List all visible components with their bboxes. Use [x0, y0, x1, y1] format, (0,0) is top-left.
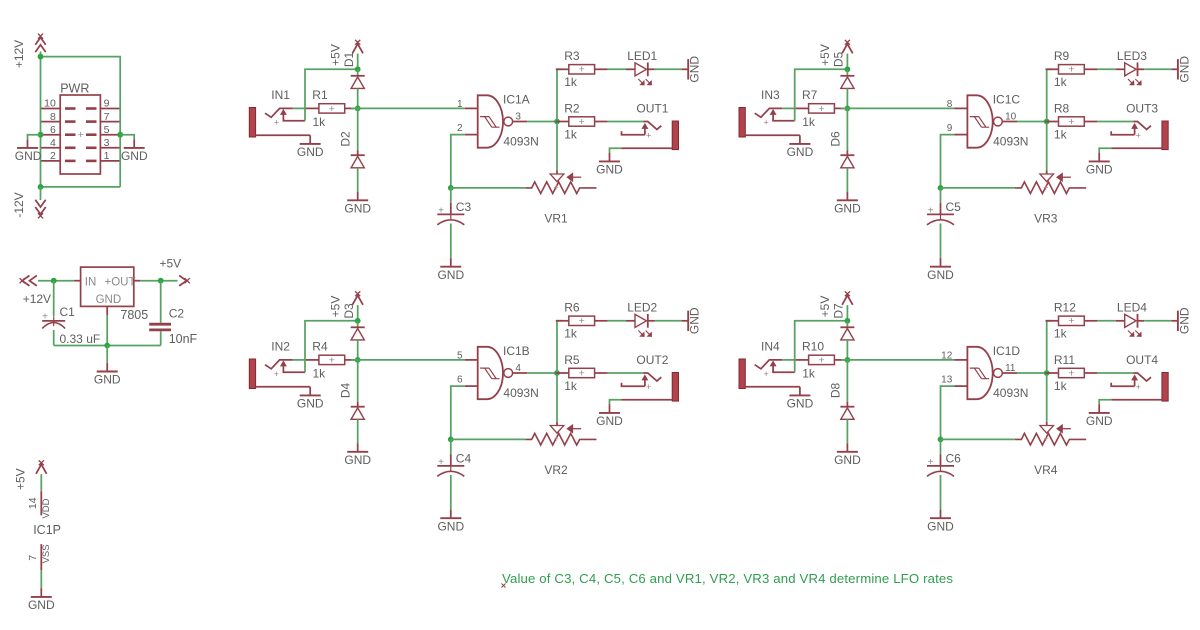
wire (gate output) — [527, 372, 557, 374]
svg-text:+: + — [579, 64, 585, 76]
ground (C5) — [927, 258, 954, 282]
svg-text:1k: 1k — [313, 366, 327, 380]
svg-text:+: + — [1068, 367, 1074, 379]
wire (+12V to regulator) — [38, 280, 74, 282]
svg-text:GND: GND — [834, 202, 861, 216]
svg-text:+: + — [818, 354, 824, 366]
wire (gate pin 2 to C/VR node) — [451, 386, 465, 439]
svg-text:+5V: +5V — [329, 296, 343, 318]
svg-text:IC1A: IC1A — [503, 92, 530, 106]
wire (jack switch to +5V node) — [795, 321, 848, 372]
ground (regulator) — [94, 363, 121, 387]
wire (resistor to output jack) — [1097, 121, 1133, 123]
supply +5V — [842, 40, 853, 53]
wire (to -12V) — [40, 187, 42, 200]
resistor R4 — [306, 354, 358, 366]
svg-text:1: 1 — [104, 150, 110, 162]
wire (sleeve to ground) — [1099, 148, 1111, 153]
svg-text:4093N: 4093N — [503, 386, 538, 400]
svg-text:+5V: +5V — [818, 296, 832, 318]
svg-text:1k: 1k — [564, 127, 578, 141]
ground (OUT4) — [1086, 404, 1113, 428]
svg-text:D2: D2 — [339, 131, 353, 147]
svg-text:IN3: IN3 — [761, 88, 780, 102]
wire (C6 to ground) — [940, 475, 942, 510]
wire (node to diode) — [357, 321, 359, 328]
svg-text:IN4: IN4 — [761, 340, 780, 354]
svg-text:C4: C4 — [456, 451, 472, 465]
wire (output node down to wiper) — [556, 373, 558, 422]
svg-text:+: + — [818, 103, 824, 115]
junction (output node) — [554, 370, 560, 376]
svg-text:+: + — [438, 206, 444, 217]
junction — [845, 66, 851, 72]
supply +5V — [842, 291, 853, 304]
ground (D8) — [834, 443, 861, 467]
svg-text:1k: 1k — [564, 379, 578, 393]
ground (IN3 sleeve) — [787, 135, 814, 159]
supply +5V — [352, 291, 363, 304]
svg-text:13: 13 — [941, 375, 953, 386]
wire (input node to gate pin) — [351, 359, 465, 361]
junction (output node) — [554, 119, 560, 125]
svg-text:+: + — [1068, 116, 1074, 128]
wire (resistor to output jack) — [608, 121, 644, 123]
ground (C4) — [437, 510, 464, 534]
junction (output node) — [1044, 370, 1050, 376]
capacitor C3 (polarized) — [437, 188, 464, 225]
svg-text:GND: GND — [297, 145, 324, 159]
jack connector OUT1 (output) — [622, 121, 679, 150]
svg-text:R3: R3 — [564, 49, 580, 63]
svg-text:1k: 1k — [802, 115, 816, 129]
svg-text:4093N: 4093N — [993, 134, 1028, 148]
junction — [117, 132, 123, 138]
ground (IN4 sleeve) — [787, 387, 814, 411]
wire (gate output) — [1017, 121, 1047, 123]
svg-text:GND: GND — [437, 519, 464, 533]
svg-text:R1: R1 — [312, 88, 328, 102]
jack connector IN2 (input) — [249, 359, 310, 389]
svg-text:VR3: VR3 — [1034, 211, 1058, 225]
wire (jack switch to +5V node) — [795, 69, 848, 120]
svg-text:+: + — [928, 206, 934, 217]
svg-text:1k: 1k — [313, 115, 327, 129]
svg-text:D8: D8 — [828, 383, 842, 399]
svg-text:+: + — [763, 118, 768, 128]
wire (C4 to ground) — [450, 475, 452, 510]
svg-text:9: 9 — [104, 98, 110, 110]
wire (lower diode to ground) — [846, 168, 848, 192]
wire (output node up to LED resistor) — [1047, 69, 1052, 121]
svg-text:+: + — [1136, 130, 1141, 140]
wire (input node to gate pin) — [841, 359, 955, 361]
ground (D6) — [834, 192, 861, 216]
ground (PWR left) — [15, 139, 42, 163]
junction (output node) — [1044, 119, 1050, 125]
svg-text:8: 8 — [947, 99, 953, 110]
jack connector OUT4 (output) — [1111, 373, 1168, 402]
resistor R11 — [1046, 367, 1098, 379]
svg-text:+: + — [274, 369, 279, 379]
svg-text:GND: GND — [787, 397, 814, 411]
wire (+5V stub) — [846, 54, 848, 70]
wire (regulator output) — [140, 280, 177, 282]
svg-text:+5V: +5V — [160, 256, 182, 270]
svg-text:VR1: VR1 — [544, 211, 568, 225]
svg-text:GND: GND — [1177, 307, 1191, 334]
wire (output node up to LED resistor) — [557, 321, 562, 373]
power pin VSS (7) — [40, 544, 42, 570]
svg-text:+5V: +5V — [13, 468, 27, 490]
wire (input node to lower diode) — [846, 360, 848, 402]
junction (C/VR node) — [448, 185, 454, 191]
svg-text:VR2: VR2 — [544, 463, 568, 477]
svg-text:-12V: -12V — [12, 192, 26, 217]
wire (diode to input node) — [846, 88, 848, 108]
jack connector OUT2 (output) — [622, 373, 679, 402]
wire (jack tip to resistor) — [293, 359, 307, 361]
svg-text:1k: 1k — [1054, 75, 1068, 89]
wire (node to VR) — [451, 187, 525, 189]
svg-text:R6: R6 — [564, 300, 580, 314]
svg-text:D6: D6 — [828, 131, 842, 147]
svg-text:R12: R12 — [1054, 300, 1076, 314]
svg-text:GND: GND — [121, 149, 148, 163]
svg-text:GND: GND — [596, 414, 623, 428]
resistor R1 — [306, 103, 358, 115]
wire (LED to ground) — [1144, 68, 1171, 70]
svg-text:3: 3 — [515, 111, 521, 122]
svg-text:+: + — [274, 118, 279, 128]
svg-text:OUT4: OUT4 — [1126, 353, 1158, 367]
jack connector IN3 (input) — [739, 108, 800, 138]
svg-text:1k: 1k — [1054, 326, 1068, 340]
junction (C/VR node) — [938, 185, 944, 191]
capacitor C6 (polarized) — [927, 439, 954, 476]
svg-text:+: + — [1068, 64, 1074, 76]
svg-text:VR4: VR4 — [1034, 463, 1058, 477]
ground (C6) — [927, 510, 954, 534]
svg-text:C3: C3 — [456, 200, 472, 214]
wire (output node down to wiper) — [1046, 373, 1048, 422]
wire (output node up to LED resistor) — [1047, 321, 1052, 373]
junction (input node) — [845, 106, 851, 112]
jack connector IN4 (input) — [739, 359, 800, 389]
resistor R10 — [796, 354, 848, 366]
wire (jack switch to +5V node) — [305, 321, 358, 372]
svg-text:GND: GND — [297, 397, 324, 411]
wire (input node to gate pin) — [351, 107, 465, 109]
supply +5V (IC1P) — [36, 460, 47, 473]
ground (OUT3) — [1086, 153, 1113, 177]
resistor R8 — [1046, 116, 1098, 128]
svg-text:8: 8 — [50, 111, 56, 123]
wire (regulator GND pin) — [106, 315, 108, 346]
svg-text:GND: GND — [596, 163, 623, 177]
svg-text:+12V: +12V — [12, 40, 26, 68]
svg-text:10: 10 — [1005, 111, 1017, 122]
wire (left ground link) — [28, 135, 41, 140]
junction — [38, 132, 44, 138]
diode D3 — [351, 327, 365, 340]
svg-text:VSS: VSS — [41, 544, 52, 563]
wire (node to VR) — [941, 438, 1015, 440]
junction (C/VR node) — [938, 437, 944, 443]
wire (gate pin 2 to C/VR node) — [941, 386, 955, 439]
capacitor C2 — [149, 281, 171, 346]
wire (+5V stub) — [357, 54, 359, 70]
junction (input node) — [355, 106, 361, 112]
nand gate IC1A (4093 Schmitt) — [465, 95, 528, 147]
wire (input node to lower diode) — [846, 108, 848, 150]
junction (input node) — [355, 357, 361, 363]
diode D2 — [351, 155, 365, 168]
capacitor C1 (polarized) — [42, 281, 65, 329]
svg-text:+: + — [646, 130, 651, 140]
wire (C1 to rail) — [53, 330, 55, 346]
potentiometer VR1 — [525, 170, 596, 193]
wire (node to diode) — [846, 69, 848, 76]
nand gate IC1C (4093 Schmitt) — [955, 95, 1018, 147]
svg-text:1k: 1k — [564, 326, 578, 340]
wire (ground rail) — [54, 345, 161, 347]
svg-text:GND: GND — [96, 294, 122, 306]
svg-text:7: 7 — [104, 111, 110, 123]
svg-text:+: + — [78, 129, 84, 141]
svg-text:GND: GND — [94, 373, 121, 387]
wire (diode to input node) — [357, 340, 359, 360]
resistor R5 — [556, 367, 608, 379]
ground (IN2 sleeve) — [297, 387, 324, 411]
wire (output node up to LED resistor) — [557, 69, 562, 121]
svg-text:2: 2 — [50, 150, 56, 162]
ground (OUT2) — [596, 404, 623, 428]
svg-text:+: + — [1043, 434, 1048, 444]
wire — [40, 570, 42, 588]
diode D4 — [351, 407, 365, 420]
wire (gate output) — [1017, 372, 1047, 374]
svg-text:6: 6 — [457, 375, 463, 386]
svg-text:OUT1: OUT1 — [636, 101, 668, 115]
svg-text:11: 11 — [1005, 363, 1016, 374]
led LED2 — [626, 314, 655, 336]
junction — [38, 54, 44, 60]
power pin VDD (14) — [40, 491, 42, 515]
wire (LED to ground) — [655, 320, 682, 322]
svg-text:7805: 7805 — [120, 308, 148, 322]
svg-text:+: + — [579, 367, 585, 379]
ground (LED1) — [682, 56, 702, 83]
junction — [104, 343, 110, 349]
wire (C3 to ground) — [450, 224, 452, 259]
svg-text:10nF: 10nF — [169, 332, 198, 346]
svg-text:+: + — [763, 369, 768, 379]
svg-text:IN2: IN2 — [271, 340, 290, 354]
wire (output node down to wiper) — [556, 122, 558, 171]
svg-text:5: 5 — [457, 351, 463, 362]
nand gate IC1D (4093 Schmitt) — [955, 347, 1018, 399]
junction — [355, 318, 361, 324]
potentiometer VR3 — [1015, 170, 1086, 193]
capacitor C5 (polarized) — [927, 188, 954, 225]
svg-text:+5V: +5V — [818, 44, 832, 66]
diode D7 — [840, 327, 854, 340]
wire (lower diode to ground) — [846, 419, 848, 443]
svg-text:4093N: 4093N — [503, 134, 538, 148]
svg-text:IC1B: IC1B — [503, 344, 530, 358]
svg-text:+: + — [1043, 183, 1048, 193]
svg-text:+12V: +12V — [23, 292, 51, 306]
svg-text:GND: GND — [1177, 56, 1191, 83]
svg-text:GND: GND — [834, 453, 861, 467]
junction — [38, 184, 44, 190]
svg-text:LED2: LED2 — [627, 301, 657, 315]
svg-text:+: + — [928, 457, 934, 468]
svg-text:GND: GND — [927, 519, 954, 533]
svg-text:1: 1 — [457, 99, 463, 110]
jack connector IN1 (input) — [249, 108, 310, 138]
supply -12V — [35, 200, 45, 219]
potentiometer VR2 — [525, 422, 596, 445]
svg-text:IC1P: IC1P — [33, 523, 61, 537]
svg-text:IC1D: IC1D — [993, 344, 1021, 358]
wire (rail to ground) — [106, 346, 108, 363]
svg-text:GND: GND — [15, 149, 42, 163]
svg-text:C2: C2 — [169, 307, 185, 321]
wire (LED to ground) — [655, 68, 682, 70]
supply +5V — [352, 40, 363, 53]
junction — [51, 278, 57, 284]
potentiometer VR4 — [1015, 422, 1086, 445]
svg-text:+: + — [554, 183, 559, 193]
resistor R6 — [556, 315, 608, 327]
svg-text:GND: GND — [28, 598, 55, 612]
supply +12V — [35, 34, 45, 53]
svg-text:R4: R4 — [312, 340, 328, 354]
led LED1 — [626, 63, 655, 85]
ground (IN1 sleeve) — [297, 135, 324, 159]
wire (+12V rail) — [40, 51, 42, 187]
wire (resistor to LED) — [1097, 68, 1115, 70]
svg-text:IC1C: IC1C — [993, 92, 1021, 106]
svg-text:1k: 1k — [802, 366, 816, 380]
wire (jack tip to resistor) — [782, 107, 796, 109]
svg-text:+: + — [329, 354, 335, 366]
svg-text:GND: GND — [688, 56, 702, 83]
svg-text:+5V: +5V — [329, 44, 343, 66]
regulator IC 7805 — [74, 267, 140, 315]
diode D5 — [840, 76, 854, 89]
svg-text:+: + — [1136, 382, 1141, 392]
wire (LED to ground) — [1144, 320, 1171, 322]
ground (D4) — [344, 443, 371, 467]
svg-text:D5: D5 — [832, 52, 846, 68]
junction (input node) — [845, 357, 851, 363]
junction (C/VR node) — [448, 437, 454, 443]
junction — [158, 278, 164, 284]
svg-text:+: + — [438, 457, 444, 468]
wire (resistor to output jack) — [608, 372, 644, 374]
wire (lower diode to ground) — [357, 168, 359, 192]
svg-text:10: 10 — [44, 98, 56, 110]
ground (LED3) — [1171, 56, 1191, 83]
svg-text:5: 5 — [104, 124, 110, 136]
wire (sleeve to ground) — [610, 148, 622, 153]
capacitor C4 (polarized) — [437, 439, 464, 476]
svg-text:+: + — [1068, 315, 1074, 327]
svg-text:VDD: VDD — [41, 498, 52, 518]
wire (+5V stub) — [846, 305, 848, 321]
wire (output node down to wiper) — [1046, 122, 1048, 171]
ground (LED4) — [1171, 307, 1191, 334]
wire (sleeve to ground) — [1099, 400, 1111, 405]
svg-text:4093N: 4093N — [993, 386, 1028, 400]
svg-text:GND: GND — [787, 145, 814, 159]
wire (gate pin 2 to C/VR node) — [451, 135, 465, 188]
svg-text:GND: GND — [437, 268, 464, 282]
svg-text:IN1: IN1 — [271, 88, 290, 102]
wire (input node to lower diode) — [357, 360, 359, 402]
svg-text:C6: C6 — [946, 451, 962, 465]
svg-text:R5: R5 — [564, 353, 580, 367]
svg-text:D1: D1 — [342, 52, 356, 68]
svg-text:2: 2 — [457, 123, 463, 134]
wire (sleeve to ground) — [610, 400, 622, 405]
svg-text:12: 12 — [941, 351, 953, 362]
svg-text:4: 4 — [50, 137, 56, 149]
svg-text:C5: C5 — [946, 200, 962, 214]
svg-text:R9: R9 — [1054, 49, 1070, 63]
svg-text:+: + — [579, 116, 585, 128]
led LED3 — [1116, 63, 1145, 85]
svg-text:GND: GND — [344, 202, 371, 216]
wire (jack tip to resistor) — [782, 359, 796, 361]
svg-text:PWR: PWR — [60, 81, 89, 95]
wire (node to VR) — [941, 187, 1015, 189]
connector PWR (2x5 header) — [41, 95, 121, 174]
svg-text:OUT3: OUT3 — [1126, 101, 1158, 115]
resistor R12 — [1046, 315, 1098, 327]
note (LFO rates) — [502, 571, 954, 588]
svg-text:D7: D7 — [832, 303, 846, 319]
diode D6 — [840, 155, 854, 168]
ground (D2) — [344, 192, 371, 216]
wire (resistor to output jack) — [1097, 372, 1133, 374]
svg-text:R2: R2 — [564, 101, 580, 115]
svg-text:C1: C1 — [60, 305, 76, 319]
svg-text:+: + — [329, 103, 335, 115]
svg-text:R7: R7 — [802, 88, 818, 102]
wire (diode to input node) — [846, 340, 848, 360]
led LED4 — [1116, 314, 1145, 336]
ground (C3) — [437, 258, 464, 282]
wire (jack tip to resistor) — [293, 107, 307, 109]
nand gate IC1B (4093 Schmitt) — [465, 347, 528, 399]
ground (PWR right) — [121, 139, 148, 163]
wire (input node to lower diode) — [357, 108, 359, 150]
svg-text:6: 6 — [50, 124, 56, 136]
svg-text:1k: 1k — [564, 75, 578, 89]
ground (IC1P) — [28, 588, 55, 612]
wire (resistor to LED) — [608, 320, 626, 322]
resistor R3 — [556, 64, 608, 76]
svg-text:OUT2: OUT2 — [636, 353, 668, 367]
svg-text:+OUT: +OUT — [105, 276, 136, 288]
wire (diode to input node) — [357, 88, 359, 108]
wire (right ground link) — [120, 135, 134, 140]
svg-text:R11: R11 — [1054, 353, 1075, 367]
